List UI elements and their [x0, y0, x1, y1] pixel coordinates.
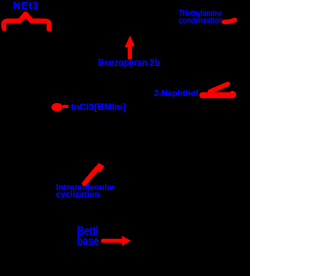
annotation arrow pointing to 2-naphthol [202, 84, 236, 98]
label 2-naphthol (right middle) [154, 88, 198, 98]
label InCl3 ionic liquid catalyst (left middle) [71, 102, 126, 112]
arrow up to benzoquinone structure [125, 36, 135, 60]
label triethylamine condensation (top-right, two lines) [179, 10, 222, 24]
red underline mark after condensation label [224, 20, 235, 22]
label benzofuran product (center) [98, 57, 160, 69]
label betti base (bottom, two lines) [77, 228, 99, 247]
red ellipse highlight before InCl3 label [51, 103, 68, 111]
brace grouping reagents (top-left red curly bracket) [4, 14, 50, 29]
arrow right from betti base label [103, 236, 131, 246]
label amine reagent (top-left) [13, 0, 39, 12]
label intramolecular cyclization (two lines) [56, 184, 115, 198]
diagonal arrow from cyclization label [85, 163, 105, 184]
